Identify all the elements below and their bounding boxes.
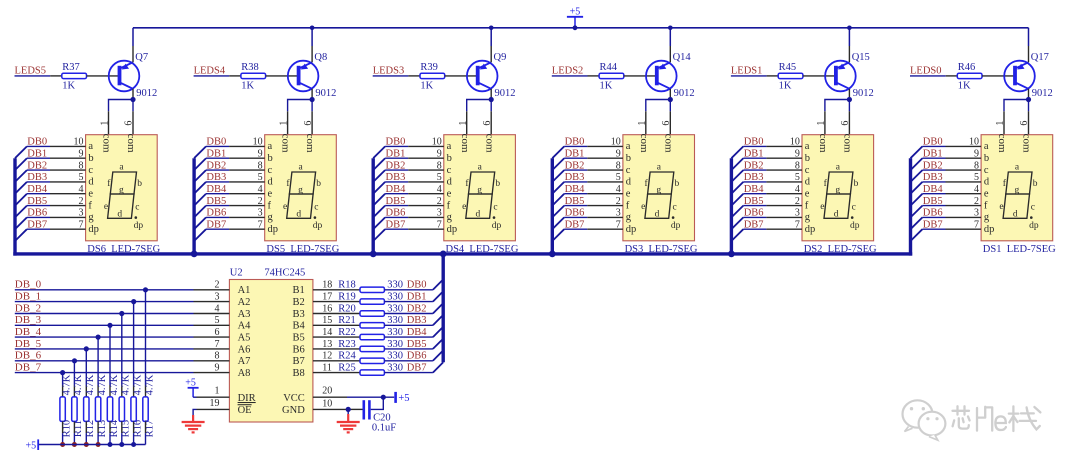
wire com pin 1 L-shape of DS4 xyxy=(467,100,492,112)
wire DB2 to DS2 pin 8 xyxy=(743,169,766,171)
svg-text:g: g xyxy=(984,212,990,223)
svg-text:4.7K: 4.7K xyxy=(73,374,84,395)
bus entry DB4 at DS1 xyxy=(911,194,923,206)
wire R46 to Q17 base xyxy=(982,75,1015,77)
svg-text:3: 3 xyxy=(437,208,442,219)
svg-text:DB7: DB7 xyxy=(923,219,943,230)
wire LEDS3 to R39 xyxy=(373,75,409,77)
wire DB6 to DS2 pin 3 xyxy=(743,216,766,218)
pin 9 (A8) of U2 xyxy=(194,372,230,374)
svg-text:8: 8 xyxy=(974,160,979,171)
wire R16 to +5 rail xyxy=(133,433,135,444)
svg-text:R37: R37 xyxy=(62,62,80,73)
svg-text:e: e xyxy=(104,202,108,212)
wire R18 to bus xyxy=(384,289,433,291)
svg-text:DB_3: DB_3 xyxy=(15,314,42,326)
pin wire out of R14 xyxy=(109,421,111,433)
svg-text:g: g xyxy=(268,212,274,223)
svg-text:dp: dp xyxy=(626,224,637,235)
svg-text:A5: A5 xyxy=(238,333,251,344)
wire R17 to +5 rail xyxy=(145,433,147,444)
svg-text:12: 12 xyxy=(322,351,332,362)
svg-text:9012: 9012 xyxy=(853,88,874,99)
wire DB4 to DS2 pin 4 xyxy=(743,193,766,195)
wire DB4 to DS6 pin 4 xyxy=(27,193,50,195)
wire DB3 to DS2 pin 5 xyxy=(743,181,766,183)
svg-text:330: 330 xyxy=(387,351,403,362)
svg-text:DB2: DB2 xyxy=(206,160,226,171)
bus junction at 74HC245 outputs xyxy=(440,251,447,258)
svg-text:7: 7 xyxy=(258,219,263,230)
IC U2 74HC245 body xyxy=(229,280,313,423)
svg-text:4.7K: 4.7K xyxy=(109,374,120,395)
pin 1 (com) of DS5 xyxy=(287,111,289,134)
svg-text:f: f xyxy=(268,200,272,211)
pin 1 (com) of DS4 xyxy=(466,111,468,134)
7-segment digit glyph of DS5 xyxy=(283,163,322,231)
wire Q8 emitter to +5 rail xyxy=(311,28,313,46)
wire Q14 collector down to DS3 com xyxy=(669,89,671,100)
bus entry DB7 at DS6 xyxy=(15,229,27,241)
svg-text:DB2: DB2 xyxy=(407,303,427,314)
pin 2 (f) of DS6 xyxy=(50,205,86,207)
ground symbol (GND pin) xyxy=(337,409,360,432)
pin wire out of R11 xyxy=(73,421,75,433)
svg-text:DB4: DB4 xyxy=(407,327,428,338)
wire DB_3 to U2 A4 xyxy=(15,324,194,326)
pin wire into R11 xyxy=(73,385,75,397)
svg-text:5: 5 xyxy=(215,315,220,326)
pin 10 (a) of DS2 xyxy=(766,145,802,147)
junction node GND / C20 xyxy=(346,407,351,412)
transistor Q7 9012 PNP xyxy=(109,61,140,92)
svg-text:17: 17 xyxy=(322,291,332,302)
svg-text:DB7: DB7 xyxy=(744,219,764,230)
svg-text:a: a xyxy=(805,141,810,152)
wire DB_4 down to R13 xyxy=(97,337,99,385)
resistor R11 4.7K (pull-up) xyxy=(72,397,77,422)
bus entry DB7 at DS1 xyxy=(911,229,923,241)
svg-text:1: 1 xyxy=(816,121,827,126)
pin 2 (f) of DS1 xyxy=(946,205,982,207)
svg-text:com: com xyxy=(817,134,829,153)
wire DB6 to DS1 pin 3 xyxy=(922,216,945,218)
svg-text:9: 9 xyxy=(437,148,442,159)
svg-text:c: c xyxy=(135,202,139,212)
bus entry DB2 at DS2 xyxy=(731,170,743,182)
bus entry DB4 at DS4 xyxy=(373,194,385,206)
capacitor C20 0.1uF xyxy=(364,400,370,419)
svg-text:a: a xyxy=(88,141,93,152)
bus entry DB0 at DS5 xyxy=(194,146,206,158)
svg-text:9012: 9012 xyxy=(1032,88,1053,99)
svg-text:a: a xyxy=(268,141,273,152)
pin wire out of R12 xyxy=(85,421,87,433)
pin 14 (B5) of U2 xyxy=(313,336,337,338)
svg-text:3: 3 xyxy=(795,208,800,219)
svg-text:R21: R21 xyxy=(338,315,356,326)
svg-text:e: e xyxy=(805,189,810,200)
pin 2 (f) of DS4 xyxy=(408,205,444,207)
bus entry DB5 at DS3 xyxy=(552,206,564,218)
svg-text:a: a xyxy=(984,141,989,152)
svg-text:DB1: DB1 xyxy=(27,148,47,159)
svg-text:DIR: DIR xyxy=(238,393,256,404)
pin 7 (dp) of DS3 xyxy=(587,228,623,230)
wire B3 into resistor R20 xyxy=(337,313,360,315)
svg-text:A1: A1 xyxy=(238,285,251,296)
pin 8 (c) of DS5 xyxy=(229,169,265,171)
svg-text:e: e xyxy=(626,189,631,200)
svg-text:DB5: DB5 xyxy=(923,196,943,207)
svg-text:1K: 1K xyxy=(420,81,433,92)
svg-text:DB0: DB0 xyxy=(386,137,406,148)
pin 5 (d) of DS5 xyxy=(229,181,265,183)
bus junction at DS5 xyxy=(191,251,198,258)
bus entry DB1 at DS1 xyxy=(911,158,923,170)
svg-text:DB1: DB1 xyxy=(744,148,764,159)
svg-text:c: c xyxy=(493,202,497,212)
resistor R45 1K xyxy=(778,73,803,78)
wire R12 to +5 rail xyxy=(85,433,87,444)
svg-text:4: 4 xyxy=(258,184,263,195)
pin 10 (a) of DS4 xyxy=(408,145,444,147)
bus entry DB1 at DS4 xyxy=(373,158,385,170)
wire DB6 to DS6 pin 3 xyxy=(27,216,50,218)
wire R24 to bus xyxy=(384,360,433,362)
pin 10 (a) of DS1 xyxy=(946,145,982,147)
wire DB3 to DS5 pin 5 xyxy=(206,181,229,183)
pin 1 (com) of DS1 xyxy=(1003,111,1005,134)
junction node VCC / C20 xyxy=(381,395,386,400)
svg-text:OE: OE xyxy=(238,405,252,416)
wire R11 to +5 rail xyxy=(73,433,75,444)
svg-text:g: g xyxy=(1015,185,1020,195)
wire R20 to bus xyxy=(384,313,433,315)
svg-text:DB_7: DB_7 xyxy=(15,361,42,373)
bus entry DB2 at DS5 xyxy=(194,170,206,182)
wire DB7 to DS4 pin 7 xyxy=(385,228,408,230)
7-segment digit glyph of DS1 xyxy=(999,163,1038,231)
svg-text:DB2: DB2 xyxy=(744,160,764,171)
pin 1 (com) of DS2 xyxy=(824,111,826,134)
svg-text:DB5: DB5 xyxy=(386,196,406,207)
bus entry DB7 at DS5 xyxy=(194,229,206,241)
pin 8 (c) of DS4 xyxy=(408,169,444,171)
svg-text:R39: R39 xyxy=(420,62,438,73)
bus entry DB1 at DS6 xyxy=(15,158,27,170)
wire Q7 emitter to +5 rail xyxy=(132,28,134,46)
svg-text:e: e xyxy=(88,189,93,200)
svg-text:DB6: DB6 xyxy=(27,208,47,219)
pin 5 (d) of DS2 xyxy=(766,181,802,183)
bus entry DB7 at U2 output xyxy=(433,362,443,372)
svg-text:4.7K: 4.7K xyxy=(61,374,72,395)
junction node DB_4 to pullup xyxy=(96,335,101,340)
svg-text:LEDS0: LEDS0 xyxy=(910,66,942,77)
svg-text:10: 10 xyxy=(611,137,621,148)
bus entry DB0 at DS6 xyxy=(15,146,27,158)
svg-text:R18: R18 xyxy=(338,280,356,291)
junction node Q8 collector / com xyxy=(310,97,315,102)
bus entry DB7 at DS2 xyxy=(731,229,743,241)
svg-text:5: 5 xyxy=(437,172,442,183)
power symbol +5 (VCC) xyxy=(396,392,410,404)
svg-text:d: d xyxy=(88,177,94,188)
svg-text:LEDS5: LEDS5 xyxy=(15,66,47,77)
svg-text:R45: R45 xyxy=(779,62,797,73)
svg-text:DB3: DB3 xyxy=(27,172,47,183)
svg-text:4.7K: 4.7K xyxy=(144,374,155,395)
svg-text:DB5: DB5 xyxy=(407,339,427,350)
svg-text:DB1: DB1 xyxy=(565,148,585,159)
svg-text:com: com xyxy=(996,134,1008,153)
transistor Q15 9012 PNP xyxy=(825,61,856,92)
svg-text:3: 3 xyxy=(215,291,220,302)
junction R11 on +5 rail xyxy=(72,442,77,447)
svg-text:4.7K: 4.7K xyxy=(132,374,143,395)
pin wire out of R16 xyxy=(133,421,135,433)
pin 1 (com) of DS3 xyxy=(645,111,647,134)
svg-text:DB3: DB3 xyxy=(206,172,226,183)
wire Q9 emitter to +5 rail xyxy=(490,28,492,46)
junction node DB_7 to pullup xyxy=(60,370,65,375)
pin 4 (e) of DS6 xyxy=(50,193,86,195)
bus entry DB2 at DS3 xyxy=(552,170,564,182)
pin 6 (com) of DS5 xyxy=(311,111,313,134)
svg-text:4.7K: 4.7K xyxy=(85,374,96,395)
svg-text:1K: 1K xyxy=(600,81,613,92)
svg-text:330: 330 xyxy=(387,327,403,338)
pin 4 (e) of DS3 xyxy=(587,193,623,195)
svg-text:e: e xyxy=(820,202,824,212)
svg-text:DB2: DB2 xyxy=(27,160,47,171)
svg-text:d: d xyxy=(626,177,632,188)
pin wire into resistor R37 xyxy=(50,75,62,77)
svg-text:a: a xyxy=(626,141,631,152)
svg-text:2: 2 xyxy=(437,196,442,207)
svg-text:DB0: DB0 xyxy=(923,137,943,148)
svg-text:a: a xyxy=(447,141,452,152)
svg-text:+5: +5 xyxy=(398,393,409,404)
svg-text:4: 4 xyxy=(795,184,800,195)
svg-text:DB6: DB6 xyxy=(407,351,427,362)
wire B2 into resistor R19 xyxy=(337,301,360,303)
svg-text:A6: A6 xyxy=(238,344,251,355)
wire DB4 to DS4 pin 4 xyxy=(385,193,408,195)
wire DB_3 down to R14 xyxy=(109,325,111,385)
pin wire out of R15 xyxy=(121,421,123,433)
7-segment digit glyph of DS4 xyxy=(462,163,501,231)
wire B8 into resistor R25 xyxy=(337,372,360,374)
svg-text:d: d xyxy=(296,209,301,219)
svg-text:5: 5 xyxy=(79,172,84,183)
wire R45 to Q15 base xyxy=(803,75,836,77)
junction node Q9 collector / com xyxy=(489,97,494,102)
pin 3 (g) of DS6 xyxy=(50,216,86,218)
wire R38 to Q8 base xyxy=(266,75,299,77)
watermark wechat logo xyxy=(903,400,946,440)
svg-text:DB7: DB7 xyxy=(27,219,47,230)
resistor R20 330 xyxy=(360,311,384,316)
svg-text:5: 5 xyxy=(258,172,263,183)
svg-text:c: c xyxy=(984,165,989,176)
svg-text:B6: B6 xyxy=(293,344,305,355)
svg-text:R25: R25 xyxy=(338,362,356,373)
svg-text:9: 9 xyxy=(215,362,220,373)
resistor R18 330 xyxy=(360,287,384,292)
svg-text:b: b xyxy=(675,179,680,189)
junction R10 on +5 rail xyxy=(60,442,65,447)
svg-text:18: 18 xyxy=(322,280,332,291)
junction node Q14 collector / com xyxy=(668,97,673,102)
wire DB5 to DS6 pin 2 xyxy=(27,205,50,207)
svg-text:b: b xyxy=(137,179,142,189)
junction node Q15 collector / com xyxy=(847,97,852,102)
svg-text:74HC245: 74HC245 xyxy=(264,267,305,278)
svg-text:c: c xyxy=(673,202,677,212)
svg-text:dp: dp xyxy=(492,221,502,231)
pin 8 (c) of DS1 xyxy=(946,169,982,171)
pin 5 (d) of DS1 xyxy=(946,181,982,183)
wire OE to ground xyxy=(193,409,196,415)
7-segment display DS5 body xyxy=(265,135,337,241)
pin 4 (e) of DS5 xyxy=(229,193,265,195)
wire DB1 to DS3 pin 9 xyxy=(564,157,587,159)
wire com pin 1 L-shape of DS3 xyxy=(646,100,671,112)
svg-text:DB3: DB3 xyxy=(386,172,406,183)
svg-text:7: 7 xyxy=(795,219,800,230)
wire +5 rail under pull-ups xyxy=(38,444,145,446)
pin 11 (B8) of U2 xyxy=(313,372,337,374)
bus entry DB4 at DS2 xyxy=(731,194,743,206)
svg-text:DB3: DB3 xyxy=(407,315,427,326)
pin 2 (f) of DS3 xyxy=(587,205,623,207)
pin wire into resistor R39 xyxy=(408,75,420,77)
wire DB7 to DS2 pin 7 xyxy=(743,228,766,230)
svg-text:com: com xyxy=(638,134,650,153)
svg-text:d: d xyxy=(984,177,990,188)
svg-text:DB_4: DB_4 xyxy=(15,326,42,338)
svg-text:d: d xyxy=(805,177,811,188)
svg-text:8: 8 xyxy=(258,160,263,171)
svg-text:DB_5: DB_5 xyxy=(15,338,42,350)
svg-text:e: e xyxy=(462,202,466,212)
svg-text:DB3: DB3 xyxy=(923,172,943,183)
pin wire out of R10 xyxy=(62,421,64,433)
resistor R12 4.7K (pull-up) xyxy=(84,397,89,422)
wire DB2 to DS3 pin 8 xyxy=(564,169,587,171)
wire R21 to bus xyxy=(384,324,433,326)
svg-text:8: 8 xyxy=(795,160,800,171)
bus entry DB7 at DS3 xyxy=(552,229,564,241)
resistor R23 330 xyxy=(360,346,384,351)
svg-text:DB7: DB7 xyxy=(565,219,585,230)
svg-text:com: com xyxy=(483,134,495,153)
svg-text:U2: U2 xyxy=(230,267,243,278)
wire LEDS2 to R44 xyxy=(552,75,588,77)
pin 17 (B2) of U2 xyxy=(313,301,337,303)
pin 7 (A6) of U2 xyxy=(194,348,230,350)
resistor R14 4.7K (pull-up) xyxy=(107,397,112,422)
svg-text:1: 1 xyxy=(100,121,111,126)
junction R16 on +5 rail xyxy=(131,442,136,447)
svg-text:6: 6 xyxy=(1019,121,1030,126)
bus entry DB4 at DS6 xyxy=(15,194,27,206)
svg-text:DB7: DB7 xyxy=(386,219,406,230)
svg-text:com: com xyxy=(280,134,292,153)
svg-text:DB5: DB5 xyxy=(744,196,764,207)
svg-text:9: 9 xyxy=(795,148,800,159)
svg-text:13: 13 xyxy=(322,339,332,350)
wire DB_4 to U2 A5 xyxy=(15,336,194,338)
wire LEDS1 to R45 xyxy=(731,75,767,77)
pin 5 (d) of DS4 xyxy=(408,181,444,183)
pin 5 (d) of DS3 xyxy=(587,181,623,183)
junction on +5 rail (Q14 emitter) xyxy=(668,26,673,31)
pin 13 (B6) of U2 xyxy=(313,348,337,350)
junction on +5 rail (Q8 emitter) xyxy=(310,26,315,31)
svg-text:b: b xyxy=(447,153,452,164)
wire DB7 to DS6 pin 7 xyxy=(27,228,50,230)
transistor Q14 9012 PNP xyxy=(646,61,677,92)
svg-text:9012: 9012 xyxy=(495,88,516,99)
svg-text:6: 6 xyxy=(303,121,314,126)
wire DB3 to DS1 pin 5 xyxy=(922,181,945,183)
svg-text:DB4: DB4 xyxy=(744,184,765,195)
pin 15 (B4) of U2 xyxy=(313,324,337,326)
wire R13 to +5 rail xyxy=(97,433,99,444)
power symbol +5 (pull-ups) xyxy=(26,439,39,451)
svg-text:330: 330 xyxy=(387,362,403,373)
pin 18 (B1) of U2 xyxy=(313,289,337,291)
wire DB_6 to U2 A7 xyxy=(15,360,194,362)
pin 10 (GND) of U2 xyxy=(313,408,352,410)
wire DB5 to DS1 pin 2 xyxy=(922,205,945,207)
svg-text:DB2: DB2 xyxy=(386,160,406,171)
resistor R39 1K xyxy=(420,73,445,78)
data bus vertical 74HC245 outputs xyxy=(442,252,445,362)
bus entry DB1 at DS2 xyxy=(731,158,743,170)
svg-text:c: c xyxy=(626,165,631,176)
svg-text:1: 1 xyxy=(215,386,220,397)
pin wire into R13 xyxy=(97,385,99,397)
svg-text:c: c xyxy=(447,165,452,176)
svg-text:10: 10 xyxy=(969,137,979,148)
svg-text:DB4: DB4 xyxy=(206,184,227,195)
power symbol +5 (DIR) xyxy=(185,377,198,397)
svg-text:B5: B5 xyxy=(293,333,305,344)
pin 8 (c) of DS3 xyxy=(587,169,623,171)
wire DB7 to DS3 pin 7 xyxy=(564,228,587,230)
wire DB4 to DS5 pin 4 xyxy=(206,193,229,195)
wire DB0 to DS1 pin 10 xyxy=(922,145,945,147)
svg-text:R23: R23 xyxy=(338,339,356,350)
svg-text:g: g xyxy=(626,212,632,223)
bus entry DB4 at U2 output xyxy=(433,327,443,337)
pin 3 (g) of DS4 xyxy=(408,216,444,218)
wire Q14 emitter to +5 rail xyxy=(669,28,671,46)
wire DB_7 down to R10 xyxy=(62,373,64,385)
wire B5 into resistor R22 xyxy=(337,336,360,338)
svg-text:DB7: DB7 xyxy=(206,219,226,230)
svg-text:DB1: DB1 xyxy=(923,148,943,159)
svg-text:f: f xyxy=(88,200,92,211)
wire DB5 to DS2 pin 2 xyxy=(743,205,766,207)
resistor R13 4.7K (pull-up) xyxy=(95,397,100,422)
pin 9 (b) of DS1 xyxy=(946,157,982,159)
svg-text:3: 3 xyxy=(79,208,84,219)
